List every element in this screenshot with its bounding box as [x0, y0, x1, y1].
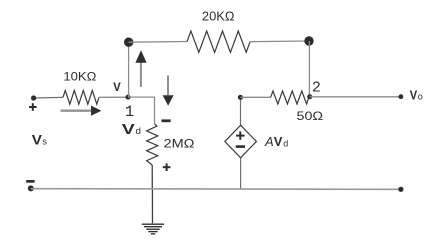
resistor 20KΩ: [187, 31, 250, 52]
svg-text:1: 1: [125, 103, 134, 121]
svg-text:V: V: [32, 132, 43, 148]
resistor 10KΩ: [63, 90, 99, 104]
Vd plus polarity mark: [163, 163, 171, 171]
svg-text:V: V: [274, 134, 283, 149]
Vs minus polarity mark: [26, 180, 34, 183]
current arrow down beside 2M branch: [163, 76, 174, 106]
svg-text:V: V: [122, 122, 135, 138]
dependent source AVd (diamond): [225, 125, 257, 158]
resistor 50Ω: [271, 91, 309, 104]
value label 50Ω: [297, 109, 324, 123]
svg-text:A: A: [264, 134, 274, 149]
AVd label: [264, 134, 288, 149]
vo label: [410, 87, 423, 102]
value label 10KΩ: [63, 70, 96, 84]
wire top right junction down to node 2: [308, 41, 310, 97]
wire 20K resistor to top right junction: [250, 40, 309, 43]
node 2 label: [312, 80, 321, 97]
wire 50 ohm left node down to dependent source: [240, 97, 242, 125]
svg-text:d: d: [136, 126, 141, 137]
node 1 label: [125, 103, 134, 121]
resistor 2MΩ (vertical): [147, 124, 158, 165]
svg-text:V: V: [410, 87, 418, 102]
Vs plus polarity mark: [29, 103, 37, 111]
ground symbol: [142, 224, 164, 234]
wire junction to 50 ohm resistor: [240, 96, 270, 98]
svg-text:s: s: [42, 137, 47, 147]
svg-text:d: d: [283, 138, 288, 148]
svg-text:2MΩ: 2MΩ: [164, 137, 195, 151]
current arrow up beside node wire: [135, 50, 146, 87]
current arrow under 10K resistor: [61, 106, 102, 116]
top left junction dot: [124, 38, 133, 47]
node 2 junction dot: [307, 94, 312, 99]
svg-text:50Ω: 50Ω: [297, 109, 324, 123]
wire 2M resistor bottom to rail: [151, 165, 153, 189]
Vd minus polarity mark: [162, 119, 171, 122]
svg-text:o: o: [418, 91, 423, 101]
Vs plus terminal dot: [31, 95, 36, 100]
wire node 1 to 2M branch corner: [128, 97, 155, 124]
svg-text:10KΩ: 10KΩ: [63, 70, 96, 84]
node V label: [113, 82, 121, 94]
junction dot left of 50 ohm: [238, 95, 243, 100]
svg-text:V: V: [113, 82, 121, 94]
svg-text:2: 2: [312, 80, 321, 97]
wire from 10K resistor to node 1: [99, 96, 128, 98]
wire node 1 up to top junction: [128, 42, 130, 97]
svg-text:20KΩ: 20KΩ: [202, 9, 235, 23]
wire dependent source bottom to rail: [240, 158, 242, 189]
value label 20KΩ: [202, 9, 235, 23]
value label 2MΩ: [164, 137, 195, 151]
wire top junction to 20K resistor: [129, 41, 187, 44]
top right junction dot: [304, 36, 313, 45]
Vd label: [122, 122, 141, 138]
Vs label: [32, 132, 48, 148]
wire from Vs plus terminal to 10K resistor: [34, 96, 63, 99]
wire rail to ground: [151, 189, 153, 224]
node 1 junction dot: [126, 95, 131, 100]
bottom rail right end dot: [398, 187, 403, 192]
Vs minus terminal dot: [28, 185, 34, 191]
vo terminal dot: [399, 94, 404, 99]
bottom rail wire: [31, 188, 401, 191]
wire node 2 to vo terminal: [310, 96, 401, 98]
